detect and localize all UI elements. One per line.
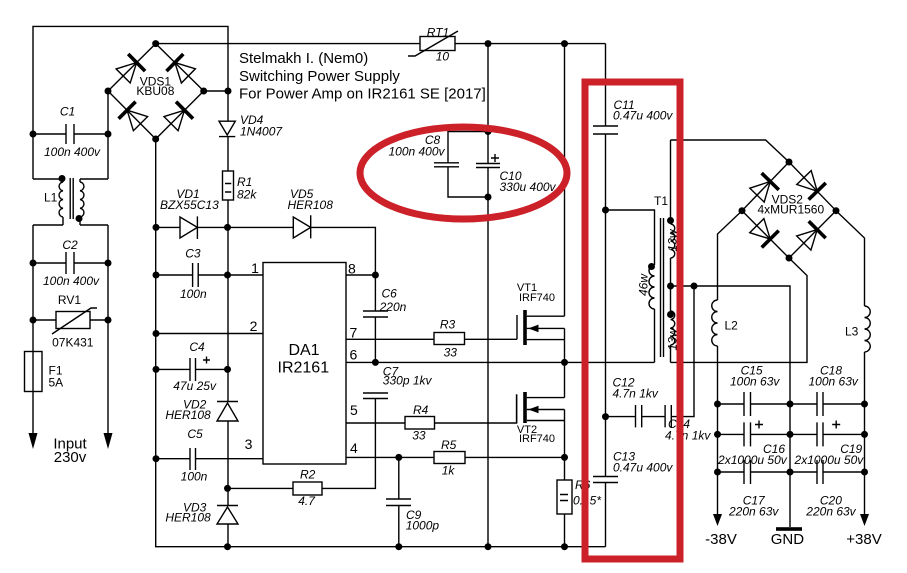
- red highlight rectangle: [585, 82, 680, 559]
- diode VDS2-3: [750, 219, 779, 248]
- wire rail C15/C18 y=404: [718, 403, 865, 405]
- svg-text:L2: L2: [725, 319, 739, 333]
- svg-text:HER108: HER108: [165, 511, 211, 525]
- wire pin8: [346, 274, 375, 276]
- input arrow right: [104, 433, 113, 449]
- input arrow left: [29, 433, 38, 449]
- diode VDS2-2: [797, 171, 826, 200]
- svg-text:L1: L1: [44, 191, 58, 205]
- wire pin5 to VT2 gate: [346, 394, 517, 423]
- thermistor RT1: [408, 26, 458, 64]
- transformer T1 primary: [606, 210, 656, 362]
- svg-text:2x1000u 50v: 2x1000u 50v: [794, 453, 865, 467]
- IC DA1 IR2161: [263, 263, 346, 465]
- svg-text:100n 400v: 100n 400v: [43, 274, 100, 288]
- svg-text:L3: L3: [845, 325, 859, 339]
- node dots x=228 column: [224, 224, 231, 231]
- svg-text:R2: R2: [300, 468, 316, 482]
- bridge VDS2 diamond: [742, 162, 836, 258]
- varistor RV1: [33, 293, 108, 350]
- svg-text:Stelmakh I. (Nem0): Stelmakh I. (Nem0): [239, 50, 368, 67]
- svg-text:For Power Amp on IR2161 SE [20: For Power Amp on IR2161 SE [2017]: [239, 86, 486, 103]
- svg-text:2x1000u 50v: 2x1000u 50v: [717, 453, 788, 467]
- svg-text:1000p: 1000p: [406, 519, 440, 533]
- wire rail C16/C19 y=434.4: [718, 433, 865, 435]
- fuse F1: [25, 352, 64, 392]
- svg-text:HER108: HER108: [288, 198, 334, 212]
- wire pin6 VS line: [346, 361, 655, 363]
- svg-text:100n 400v: 100n 400v: [388, 145, 445, 159]
- svg-text:5A: 5A: [49, 376, 64, 390]
- svg-text:GND: GND: [771, 531, 805, 548]
- capacitor C9 1000p: [386, 457, 439, 546]
- capacitor C12 4.7n: [613, 376, 659, 428]
- svg-text:C6: C6: [382, 287, 398, 301]
- label Input 230v: [53, 436, 87, 467]
- capacitor C10 330u: [476, 154, 557, 194]
- wire C12/C14 line y=416.6: [606, 286, 695, 417]
- capacitor C8 100n branch: [388, 132, 488, 198]
- svg-text:IRF740: IRF740: [519, 433, 555, 445]
- svg-text:2: 2: [250, 318, 258, 334]
- svg-text:C1: C1: [60, 105, 75, 119]
- capacitor C15 100n: [730, 364, 780, 417]
- svg-text:10: 10: [436, 50, 450, 64]
- wire rail C17/C20 y=472: [718, 471, 865, 473]
- svg-text:33: 33: [412, 429, 426, 443]
- svg-text:100n: 100n: [180, 287, 207, 301]
- diode VDS2-1: [750, 173, 779, 202]
- bridge VDS1 diamond: [108, 44, 204, 139]
- svg-text:T1: T1: [654, 194, 668, 208]
- wire AC right column x=108: [107, 91, 109, 433]
- wire VDS2 left node to L2: [718, 211, 743, 300]
- output arrow +38V: [860, 514, 869, 526]
- diode VD3 HER108: [165, 501, 238, 525]
- svg-text:220n 63v: 220n 63v: [805, 505, 856, 519]
- capacitor C7 330p: [363, 365, 433, 399]
- svg-text:-38V: -38V: [705, 531, 737, 548]
- capacitor C14 4.7n: [665, 405, 711, 443]
- svg-text:82k: 82k: [237, 188, 257, 202]
- svg-text:1k: 1k: [442, 464, 456, 478]
- svg-text:Switching Power Supply: Switching Power Supply: [239, 68, 400, 85]
- svg-text:220n: 220n: [379, 300, 407, 314]
- svg-text:DA1: DA1: [288, 342, 319, 359]
- wire DC+ rail y=43.6: [156, 43, 606, 45]
- svg-text:C5: C5: [187, 427, 203, 441]
- label VDS1 KBU08: [136, 75, 174, 99]
- node dots bottom bus: [224, 543, 231, 550]
- svg-text:4.7n 1kv: 4.7n 1kv: [613, 387, 659, 401]
- diode VD4: [219, 113, 283, 139]
- svg-text:100n 63v: 100n 63v: [809, 375, 859, 389]
- node dots C1/C2/RV1: [30, 131, 37, 138]
- node VS junction: [561, 359, 568, 366]
- svg-text:100n: 100n: [181, 470, 208, 484]
- svg-text:100n 400v: 100n 400v: [44, 145, 101, 159]
- node dots DA1 area: [372, 272, 379, 279]
- svg-text:IRF740: IRF740: [519, 292, 555, 304]
- ground symbol GND: [776, 527, 802, 531]
- capacitor C17 220n: [728, 460, 779, 519]
- svg-text:C4: C4: [189, 340, 205, 354]
- svg-text:C3: C3: [185, 247, 201, 261]
- svg-text:220n 63v: 220n 63v: [728, 505, 779, 519]
- capacitor C18 100n: [809, 364, 859, 417]
- diode VDS1-3: [119, 102, 148, 131]
- capacitor C13 0.47u: [593, 450, 673, 483]
- svg-text:KBU08: KBU08: [136, 84, 174, 98]
- node dots x=156 column: [153, 224, 160, 231]
- capacitor C1: [33, 105, 108, 160]
- diode VDS1-4: [164, 102, 193, 131]
- resistor R5 1k: [434, 438, 465, 478]
- capacitor C20 220n: [805, 460, 856, 519]
- wire pin7 to VT1 gate: [346, 338, 517, 340]
- svg-text:C2: C2: [62, 238, 78, 252]
- svg-text:4.7n 1kv: 4.7n 1kv: [665, 429, 711, 443]
- svg-text:1: 1: [251, 260, 259, 276]
- capacitor C16 electrolytic: [717, 421, 788, 468]
- wire VDS1 right node to x=228: [204, 90, 228, 92]
- output arrow -38V: [713, 514, 722, 526]
- wire ground column x=156: [156, 139, 606, 547]
- svg-text:47u 25v: 47u 25v: [173, 379, 217, 393]
- svg-text:R3: R3: [440, 318, 456, 332]
- resistor R1 82k: [223, 171, 258, 202]
- svg-text:BZX55C13: BZX55C13: [160, 198, 219, 212]
- transformer T1 core: [661, 218, 664, 357]
- svg-text:6: 6: [350, 347, 358, 363]
- transistor VT1 IRF740: [517, 44, 565, 363]
- resistor R3 33: [434, 318, 465, 360]
- svg-text:R5: R5: [441, 438, 457, 452]
- node dots output rails: [714, 401, 721, 408]
- svg-text:IR2161: IR2161: [278, 360, 330, 377]
- wire VCC column x=228 (VD4/R1): [227, 91, 229, 547]
- node dots VDS2: [786, 159, 793, 166]
- wire top-left loop: [33, 26, 228, 134]
- resistor R6 0.15 shunt: [557, 478, 601, 547]
- svg-text:0.47u 400v: 0.47u 400v: [613, 109, 673, 123]
- svg-text:07K431: 07K431: [52, 336, 94, 350]
- node dots snubber column: [602, 207, 609, 214]
- svg-text:HER108: HER108: [165, 408, 211, 422]
- wire secondary bottom to VDS2 bottom: [671, 258, 808, 362]
- svg-text:+38V: +38V: [846, 531, 881, 548]
- svg-text:R4: R4: [413, 403, 429, 417]
- transformer T1 secondary 2: [666, 287, 680, 362]
- zener VD1 BZX55C13: [160, 187, 219, 239]
- wire VD1/VD5 line y=227.4: [156, 227, 375, 275]
- svg-text:8: 8: [348, 261, 356, 277]
- title text: [239, 50, 486, 103]
- transistor VT2 IRF740: [517, 362, 565, 480]
- diode VDS2-4: [797, 221, 826, 250]
- node dots center tap: [667, 283, 674, 290]
- capacitor C2: [33, 238, 108, 288]
- svg-text:3: 3: [245, 436, 253, 452]
- label VDS2 4xMUR1560: [757, 193, 824, 217]
- svg-text:5: 5: [350, 402, 358, 418]
- capacitor C4 47u electrolytic: [156, 340, 228, 393]
- resistor R2 4.7: [228, 399, 376, 509]
- svg-text:330u 400v: 330u 400v: [500, 180, 557, 194]
- svg-text:33: 33: [444, 346, 458, 360]
- capacitor C19 electrolytic: [794, 421, 865, 468]
- svg-text:100n 63v: 100n 63v: [730, 375, 780, 389]
- node dots VDS1: [152, 40, 159, 47]
- transformer T1 secondary 1: [666, 140, 680, 287]
- pin number labels: [245, 260, 358, 456]
- capacitor C5 / wire pin3: [156, 427, 263, 484]
- wire C8/C10 column x=488: [487, 44, 489, 547]
- svg-text:7: 7: [350, 325, 358, 341]
- diode VD5 HER108: [288, 187, 334, 238]
- svg-text:4xMUR1560: 4xMUR1560: [757, 203, 824, 217]
- svg-text:4: 4: [350, 440, 358, 456]
- wire pin2: [156, 333, 263, 335]
- capacitor C6 220n: [363, 275, 407, 362]
- capacitor C11 0.47u: [593, 98, 673, 134]
- diode VDS1-2: [167, 54, 196, 83]
- svg-text:46w: 46w: [637, 273, 651, 296]
- diode VDS1-1: [116, 54, 145, 83]
- svg-text:RV1: RV1: [58, 293, 81, 307]
- wire center tap to GND column: [671, 286, 791, 527]
- red highlight ellipse: [360, 127, 567, 219]
- svg-text:0.47u 400v: 0.47u 400v: [613, 461, 673, 475]
- node dots DC rail: [485, 40, 492, 47]
- svg-text:330p 1kv: 330p 1kv: [383, 374, 433, 388]
- inductor L1: [33, 175, 108, 225]
- resistor R4 33: [405, 403, 435, 443]
- wire pin4 / R5 line: [346, 456, 565, 458]
- inductor L2: [712, 300, 738, 514]
- wire AC left column x=33: [32, 134, 34, 433]
- svg-text:1N4007: 1N4007: [240, 125, 283, 139]
- svg-text:RT1: RT1: [427, 26, 449, 40]
- wire VDS2 right node to L3: [836, 211, 865, 306]
- inductor L3: [845, 306, 870, 514]
- capacitor C3: [156, 247, 263, 302]
- wire snubber column x=605.5: [605, 44, 607, 547]
- diode VD2 HER108: [165, 398, 238, 423]
- svg-text:230v: 230v: [54, 449, 87, 466]
- wire secondary top to VDS2 top: [671, 140, 790, 162]
- svg-text:4.7: 4.7: [298, 494, 316, 508]
